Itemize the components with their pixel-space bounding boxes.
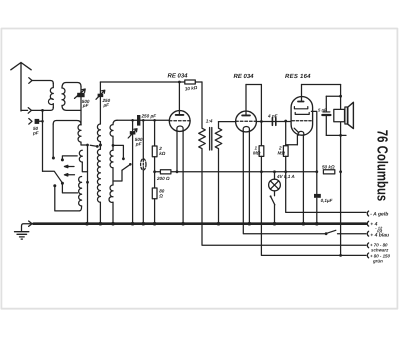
node 285.7/171.8 xyxy=(284,170,287,173)
svg-text:MΩ: MΩ xyxy=(278,151,286,156)
node bus/R3 xyxy=(153,222,157,226)
ground xyxy=(22,224,34,232)
grid leak column 285.7 xyxy=(285,121,287,146)
terminal row2 +4-12 xyxy=(367,221,368,226)
resistor R1 10k xyxy=(185,80,196,84)
svg-text:schwarz: schwarz xyxy=(371,247,389,252)
node 316.8/223.7 xyxy=(315,222,319,226)
wire tap to contact post xyxy=(113,145,123,158)
svg-text:Ω: Ω xyxy=(158,194,163,199)
wire S4 to terminal xyxy=(338,233,367,235)
phone jack column (dashed) xyxy=(142,120,144,158)
wire L4b to bus xyxy=(99,202,101,223)
terminal row4 +70-80 xyxy=(367,243,368,248)
switch S3 tail to coil tap xyxy=(113,170,122,181)
speaker loop top xyxy=(326,95,340,97)
switch S5 blade xyxy=(271,197,275,205)
wire S5 to bus xyxy=(274,205,276,224)
svg-text:kΩ: kΩ xyxy=(159,151,166,156)
node 87.5/182.3 xyxy=(86,181,89,184)
node 303.4/223.7 xyxy=(302,222,306,226)
V2 filament left leg to switch rail xyxy=(243,132,325,234)
wire upper plug to coil L1 xyxy=(32,81,53,84)
contact stub with node xyxy=(62,156,77,160)
svg-text:76 Columbus: 76 Columbus xyxy=(374,130,391,201)
switch S1 blade xyxy=(43,171,63,183)
wire contact post to coil bottom xyxy=(55,186,80,211)
wire L3a to tap xyxy=(81,142,86,145)
wire R1 to transformer xyxy=(195,81,202,83)
node switch S1 contact xyxy=(61,182,64,185)
resistor R4 200ohm xyxy=(160,170,171,174)
svg-text:5 nF: 5 nF xyxy=(318,108,327,113)
wire C3 to coil L4a xyxy=(99,97,101,124)
node 249.4/223.7 xyxy=(248,222,252,226)
wire L5b-L5c xyxy=(112,168,114,185)
variable capacitor C3 250pF xyxy=(98,94,104,97)
coil L5a xyxy=(110,125,113,137)
transformer T1 secondary xyxy=(215,122,222,224)
node box3 left end xyxy=(52,157,55,160)
wire antenna switch column xyxy=(42,110,44,171)
contact arrow 1 xyxy=(64,165,74,167)
svg-text:RE 034: RE 034 xyxy=(168,73,189,80)
band switch box top xyxy=(53,121,81,125)
svg-text:- A gelb: - A gelb xyxy=(370,212,388,218)
svg-text:1:4: 1:4 xyxy=(206,119,213,124)
node 340.6/255.4 xyxy=(339,254,342,257)
wire R6 to row1 terminal xyxy=(286,156,366,212)
svg-text:pF: pF xyxy=(32,130,39,135)
node 154.6/171.8 xyxy=(153,170,156,173)
switch S4 blade xyxy=(327,230,336,233)
V3 anode top wire xyxy=(302,84,341,86)
V2 anode loop to grid cap xyxy=(246,84,261,86)
filter column 316.8 xyxy=(311,111,316,223)
wire C4 to bus xyxy=(132,135,134,224)
terminal row5 +80-150 xyxy=(367,253,368,258)
resistor R3 80 ohm xyxy=(152,188,157,199)
wire lamp to switch xyxy=(274,191,276,196)
triode V2 RE034 xyxy=(236,85,257,132)
resistor R2 2k column xyxy=(154,120,156,146)
coil L3c xyxy=(79,176,82,206)
node 285.7/121 xyxy=(284,120,287,123)
wire R2 to node xyxy=(154,157,156,188)
coil L4b xyxy=(97,149,100,202)
node bus/L5 xyxy=(111,222,115,226)
coil L3a xyxy=(78,124,81,142)
switch S3 blade xyxy=(122,165,130,171)
node 274.5/171.8 xyxy=(273,170,276,173)
capacitor C6 4nF xyxy=(272,118,275,126)
node 261.4/121.5 xyxy=(260,120,263,123)
svg-text:4V 0,1 A: 4V 0,1 A xyxy=(276,174,295,179)
V3 grid leg xyxy=(296,135,298,144)
node tap 87.5/145 xyxy=(86,144,89,147)
node bus/jack J1 xyxy=(142,222,146,226)
coil L2 secondary xyxy=(62,88,65,106)
svg-text:50 kΩ: 50 kΩ xyxy=(322,165,335,170)
heater rail y=171.8 xyxy=(155,171,317,173)
wire S1 contact to coil tap xyxy=(62,183,77,193)
svg-text:RE 034: RE 034 xyxy=(234,73,255,80)
node 42.5/110.4 xyxy=(41,109,44,112)
svg-text:4 nF: 4 nF xyxy=(267,114,278,119)
wire plug to coil L1 xyxy=(32,108,54,111)
terminal row3 +4 xyxy=(367,231,368,236)
wire antenna to plug xyxy=(21,109,28,111)
speaker driver box xyxy=(334,109,345,121)
plug P2 (antenna upper socket) xyxy=(29,78,32,84)
wire switch column to bus xyxy=(87,145,89,224)
node on column 100.4 xyxy=(99,144,102,147)
node 340.6/171.8 xyxy=(339,170,342,173)
wire top xyxy=(99,82,101,94)
capacitor C5 250pF coupling (block) xyxy=(137,115,140,126)
wire L3b bottom xyxy=(82,162,87,172)
node bus/L4 xyxy=(99,222,103,226)
svg-text:200 Ω: 200 Ω xyxy=(156,176,170,181)
speaker horn xyxy=(348,102,354,128)
lamp column xyxy=(274,172,276,179)
node 274.5/223.7 xyxy=(273,222,277,226)
resistor R7 50k xyxy=(323,170,334,174)
tube type labels xyxy=(168,73,312,81)
wire R5 down to terminal row5 xyxy=(261,156,366,255)
plug P1 (antenna lower socket) xyxy=(28,108,31,114)
bus plug xyxy=(29,221,32,226)
coil L5c xyxy=(109,185,113,202)
terminal row1 -A xyxy=(367,211,368,216)
coil L3b xyxy=(79,150,82,162)
node bus/switch column xyxy=(85,222,89,226)
variable capacitor C4 500pF column xyxy=(132,120,134,130)
node 143.3/120.3 xyxy=(142,119,145,122)
svg-text:+ 4 blau: + 4 blau xyxy=(370,232,389,238)
band switch box left side xyxy=(52,124,54,157)
transformer T1 primary xyxy=(199,82,366,245)
output column 340.6 xyxy=(340,85,342,256)
svg-text:grün: grün xyxy=(372,259,383,264)
svg-text:RES 164: RES 164 xyxy=(285,73,311,80)
contact arrow 2 xyxy=(64,174,74,176)
branch to pentode grid leg xyxy=(286,144,298,146)
wire L5c to bus xyxy=(112,202,114,224)
switch S2 blade xyxy=(90,145,96,146)
resistor R2 2k xyxy=(152,146,157,157)
jack J1 dashed ellipse xyxy=(141,159,146,170)
wire L4a to L4b xyxy=(99,142,101,150)
coil L5b xyxy=(110,150,113,168)
node 132.6/120.3 xyxy=(131,119,134,122)
resistor R5 1M xyxy=(259,146,264,157)
svg-text:µF: µF xyxy=(103,103,110,108)
anode/AVC column 261.4 xyxy=(260,85,262,146)
triode V1 RE034 xyxy=(169,82,190,131)
variable capacitor C2 500pF xyxy=(77,93,84,97)
wire jack to bus xyxy=(142,170,144,224)
V3 cathode leg xyxy=(302,136,304,224)
pentode V3 RES164 xyxy=(291,85,313,136)
node bus/C4 xyxy=(131,222,135,226)
wire box right side xyxy=(80,87,82,126)
svg-text:0,1µF: 0,1µF xyxy=(321,198,333,203)
node contact post B xyxy=(53,184,56,187)
svg-text:pF: pF xyxy=(82,103,89,108)
node tap on L5 column xyxy=(112,144,115,147)
grid coupling wire 4nF xyxy=(256,121,290,123)
wire R3 to bus xyxy=(154,199,156,224)
svg-text:MΩ: MΩ xyxy=(253,151,261,156)
wire L3c to bottom wire xyxy=(80,206,82,211)
antenna xyxy=(11,63,31,112)
node 261.4/171.8 xyxy=(260,170,263,173)
coil L4a xyxy=(97,124,100,142)
node contact post xyxy=(122,157,125,160)
tuned circuit box L2/C2 top xyxy=(62,83,81,89)
V2 filament right leg xyxy=(248,132,250,224)
plug P3 (50pF antenna socket) xyxy=(29,119,32,125)
speaker loop left with C7 xyxy=(325,96,327,135)
resistor R6 2M xyxy=(283,146,288,157)
V1 filament left leg xyxy=(176,131,178,172)
node 179.4/82 xyxy=(178,81,181,84)
speaker coil bar xyxy=(345,107,348,124)
wire secondary to V2 grid xyxy=(219,121,236,123)
coil L1 antenna coil xyxy=(48,84,53,108)
node S2 right xyxy=(96,145,99,148)
anode wire top rail xyxy=(100,81,184,83)
lamp LA1 xyxy=(269,179,281,191)
V1 filament right leg xyxy=(182,131,184,223)
grid wire to tube V1 xyxy=(117,119,169,121)
node 154.6/120.3 xyxy=(153,119,156,122)
node 316.8/171.8 xyxy=(315,170,318,173)
transformer T1 core xyxy=(210,128,212,151)
capacitor C8 0.1uF xyxy=(314,194,321,198)
capacitor C7 5nF xyxy=(323,111,330,113)
tuned circuit box bottom xyxy=(62,105,81,110)
svg-text:10 kΩ: 10 kΩ xyxy=(185,85,198,92)
ground bus xyxy=(34,222,367,225)
node 218.5/223.7 xyxy=(217,222,221,226)
capacitor C1 50pF (block) xyxy=(35,119,40,124)
node 42.5/121.3 xyxy=(41,120,44,123)
node 183.1/223.7 xyxy=(181,222,185,226)
node S3 tip xyxy=(129,163,132,166)
svg-text:pF: pF xyxy=(135,142,142,147)
wire C1 to node xyxy=(39,120,42,122)
speaker loop bottom xyxy=(326,134,346,136)
svg-text:250 pF: 250 pF xyxy=(141,114,157,119)
node 340.6/135.4 xyxy=(339,134,342,137)
wire top corner to grid line xyxy=(113,120,117,124)
node switch left xyxy=(325,232,328,235)
node 340.6/96.2 xyxy=(339,95,342,98)
node 177/171.8 xyxy=(176,170,179,173)
wire L5a-L5b xyxy=(112,136,114,150)
